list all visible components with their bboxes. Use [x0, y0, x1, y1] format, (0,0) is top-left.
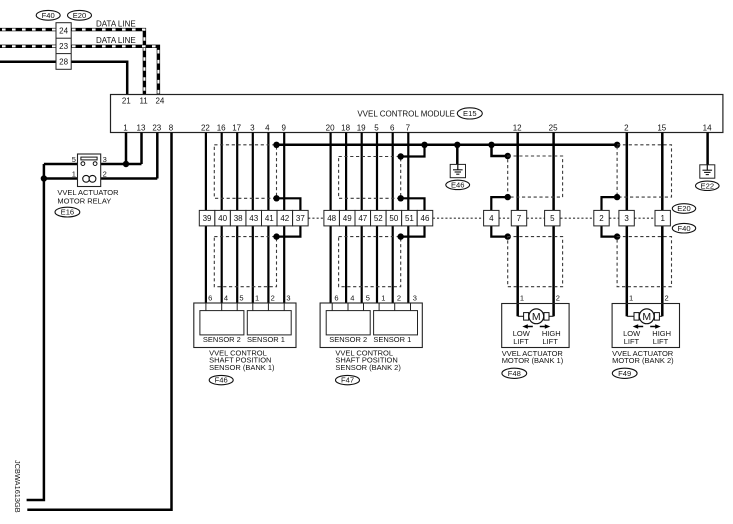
junction supply feed / relay pin 1: [41, 175, 47, 181]
svg-text:1: 1: [72, 169, 76, 178]
connector E46: [446, 180, 470, 189]
wire module pin 1 down: [125, 133, 128, 165]
svg-text:DATA LINE: DATA LINE: [96, 36, 136, 45]
junction pins 1/13/relay-3: [123, 161, 129, 167]
wire ground bus to motor1 shield: [492, 145, 508, 156]
svg-text:40: 40: [218, 214, 227, 223]
wire to module pin 21: [0, 62, 127, 95]
junction shield2 / drain lower: [398, 233, 404, 239]
svg-text:SENSOR 1: SENSOR 1: [373, 335, 411, 344]
svg-text:VVEL CONTROL MODULE: VVEL CONTROL MODULE: [357, 109, 455, 118]
wire module pin 22 to sensor bank1: [205, 133, 207, 304]
svg-text:F47: F47: [341, 376, 354, 385]
svg-text:E22: E22: [701, 181, 715, 190]
connector pin 37 (row F46 side): [293, 210, 309, 226]
wire supply feed down-left to page exit: [27, 164, 44, 500]
shield lower (sensor bank 2): [339, 237, 401, 287]
wire module pin 16 to sensor bank1: [221, 133, 223, 304]
motor M symbol bank 2: [634, 309, 659, 324]
sensor bank 1 internal stubs: [206, 303, 284, 311]
svg-text:47: 47: [358, 214, 367, 223]
shield lower (motor bank 1): [508, 237, 563, 287]
wire shield ground bus: [277, 144, 618, 147]
connector F47: [336, 375, 360, 384]
svg-text:M: M: [642, 311, 651, 323]
svg-text:2: 2: [556, 293, 560, 302]
svg-text:6: 6: [208, 293, 212, 302]
svg-text:SENSOR 2: SENSOR 2: [329, 335, 367, 344]
wire data line 2 (CAN-L) to module pin 24: [0, 46, 158, 94]
svg-text:3: 3: [624, 214, 629, 223]
wire module pin 9 to sensor bank1: [283, 133, 285, 304]
svg-text:5: 5: [239, 293, 243, 302]
connector pin 43 (row F46 side): [246, 210, 262, 226]
wire shield2 drain to pin 46 bottom: [401, 226, 425, 237]
svg-text:SENSOR (BANK 1): SENSOR (BANK 1): [209, 363, 275, 372]
svg-text:MOTOR RELAY: MOTOR RELAY: [57, 196, 111, 205]
svg-text:38: 38: [234, 214, 243, 223]
svg-text:SENSOR 1: SENSOR 1: [247, 335, 285, 344]
svg-text:22: 22: [201, 124, 210, 133]
shield upper (sensor bank 1): [214, 145, 276, 199]
motor bank 2 HIGH arrow: [650, 324, 661, 329]
svg-text:2: 2: [624, 124, 629, 133]
wire module pin 3 to sensor bank1: [252, 133, 254, 304]
svg-text:52: 52: [374, 214, 383, 223]
VVEL control module E15 box: [111, 95, 723, 133]
wire module pin 5 to sensor bank2: [376, 133, 378, 304]
junction bus / motor1 shield feed: [488, 142, 494, 148]
connector label E15 (module): [457, 108, 482, 119]
svg-text:E16: E16: [61, 208, 75, 217]
svg-text:25: 25: [549, 124, 558, 133]
connector F48: [502, 368, 527, 378]
svg-text:E46: E46: [451, 181, 465, 190]
connector pin 46 (row F47 side): [417, 210, 433, 226]
connector pin 48 (row F47 side): [324, 210, 340, 226]
svg-text:F40: F40: [42, 11, 55, 20]
svg-text:SENSOR 2: SENSOR 2: [203, 335, 241, 344]
connector E20 (row right): [672, 204, 695, 214]
wire module pin 14 to ground E22: [706, 133, 709, 165]
svg-text:18: 18: [341, 124, 350, 133]
connector pin 4 (motor bank1 row): [484, 210, 499, 226]
svg-text:17: 17: [232, 124, 241, 133]
svg-text:11: 11: [139, 97, 148, 106]
connector pin 5 (motor bank1 row): [545, 210, 560, 226]
junction shield1 / drain lower: [273, 233, 279, 239]
svg-text:1: 1: [381, 293, 385, 302]
svg-text:1: 1: [123, 124, 128, 133]
connector pin 3 (motor bank2 row): [619, 210, 634, 226]
svg-text:LIFT: LIFT: [653, 337, 669, 346]
svg-text:F48: F48: [508, 369, 521, 378]
motor bank 2 wire bends to brushes: [627, 315, 663, 317]
wire motor1 shield drain to pin 4 top: [491, 197, 507, 210]
junction motor1 shield / drain pin 4: [505, 194, 511, 200]
svg-text:E15: E15: [463, 109, 477, 118]
svg-text:MOTOR (BANK 1): MOTOR (BANK 1): [502, 356, 564, 365]
connector F49: [612, 368, 637, 378]
svg-text:JCBWA1613GB: JCBWA1613GB: [13, 460, 22, 513]
wire shield2 drain to pin 46 top: [401, 198, 425, 210]
svg-text:LIFT: LIFT: [542, 337, 558, 346]
svg-text:37: 37: [296, 214, 305, 223]
svg-text:6: 6: [390, 124, 395, 133]
svg-text:19: 19: [357, 124, 366, 133]
svg-text:5: 5: [72, 155, 76, 164]
svg-text:46: 46: [421, 214, 430, 223]
wire relay pin 2 to module pin 23: [101, 177, 158, 180]
relay E16 VVEL actuator motor relay: [78, 154, 101, 187]
svg-text:21: 21: [122, 97, 131, 106]
ground symbol E46: [450, 164, 465, 177]
junction shield1 / ground bus: [273, 142, 279, 148]
svg-text:DATA LINE: DATA LINE: [96, 20, 136, 29]
shield upper (motor bank 2): [617, 145, 671, 197]
connector pin 7 (motor bank1 row): [511, 210, 526, 226]
wire module pin 19 to sensor bank2: [361, 133, 363, 304]
svg-text:MOTOR (BANK 2): MOTOR (BANK 2): [612, 356, 674, 365]
wire module pin 17 to sensor bank1: [236, 133, 238, 304]
wire module pin 6 to sensor bank2: [392, 133, 394, 304]
connector F40 (top left): [36, 10, 60, 20]
wire module pin 4 to sensor bank1: [267, 133, 269, 304]
junction motor1 shield lower: [505, 233, 511, 239]
svg-text:4: 4: [489, 214, 494, 223]
wire module pin 12 to motor bank1: [516, 133, 519, 317]
svg-text:16: 16: [217, 124, 226, 133]
connector pin 49 (row F47 side): [339, 210, 355, 226]
svg-text:6: 6: [334, 293, 338, 302]
shield lower (motor bank 2): [617, 237, 671, 287]
svg-text:5: 5: [366, 293, 370, 302]
junction motor1 shield top: [505, 153, 511, 159]
junction motor2 shield lower: [614, 233, 620, 239]
svg-text:8: 8: [169, 124, 174, 133]
sensor bank 2 internal stubs: [332, 303, 410, 311]
wire module pin 15 to motor bank2: [661, 133, 664, 317]
shield upper (sensor bank 2): [339, 157, 401, 199]
wire module pin 25 to motor bank1: [552, 133, 555, 317]
connector cell block pins 24/23/28 (F40/E20): [56, 23, 71, 70]
svg-text:3: 3: [286, 293, 290, 302]
junction shield2 / drain top: [398, 153, 404, 159]
connector F40 (row right): [672, 223, 695, 233]
svg-text:4: 4: [224, 293, 228, 302]
junction bus / shield2 drain: [421, 142, 427, 148]
svg-text:28: 28: [59, 57, 68, 66]
svg-text:51: 51: [405, 214, 414, 223]
wire motor2 shield drain to pin 2 bottom: [602, 226, 618, 237]
svg-text:20: 20: [326, 124, 335, 133]
svg-text:9: 9: [281, 124, 286, 133]
svg-text:2: 2: [103, 169, 107, 178]
svg-text:5: 5: [374, 124, 379, 133]
svg-text:2: 2: [599, 214, 604, 223]
wire shield1 drain to pin 37 top: [277, 198, 301, 210]
svg-text:LIFT: LIFT: [513, 337, 529, 346]
svg-text:3: 3: [250, 124, 255, 133]
junction shield2 / drain upper: [398, 195, 404, 201]
svg-text:SENSOR (BANK 2): SENSOR (BANK 2): [335, 363, 401, 372]
VVEL actuator motor bank 1 box: [502, 304, 569, 348]
svg-text:F49: F49: [618, 369, 631, 378]
connector pin 51 (row F47 side): [402, 210, 418, 226]
wire module pin 13 down: [140, 133, 143, 165]
VVEL actuator motor bank 2 box: [612, 304, 679, 348]
shield upper (motor bank 1): [508, 156, 563, 197]
svg-text:14: 14: [703, 124, 712, 133]
connector pin 50 (row F47 side): [386, 210, 402, 226]
connector F46: [209, 375, 233, 384]
motor M symbol bank 1: [524, 309, 549, 324]
VVEL control shaft position sensor bank 1 box: [194, 303, 296, 348]
motor bank 1 HIGH arrow: [540, 324, 551, 329]
svg-text:E20: E20: [73, 11, 87, 20]
svg-text:E20: E20: [677, 204, 691, 213]
svg-text:23: 23: [152, 124, 161, 133]
motor bank 1 wire bends to brushes: [518, 315, 554, 317]
wire module pin 7 to sensor bank2: [407, 133, 409, 304]
wire data line 1 (CAN-H) to module pin 11: [0, 30, 144, 95]
svg-text:43: 43: [249, 214, 258, 223]
connector E16: [55, 207, 80, 217]
svg-text:42: 42: [280, 214, 289, 223]
svg-text:1: 1: [255, 293, 259, 302]
connector pin 52 (row F47 side): [371, 210, 387, 226]
svg-text:4: 4: [265, 124, 270, 133]
svg-text:F46: F46: [215, 376, 228, 385]
wire shield2 drain to ground bus: [401, 145, 425, 157]
svg-text:5: 5: [550, 214, 555, 223]
svg-text:2: 2: [271, 293, 275, 302]
wire module pin 8 down to page exit: [27, 133, 171, 510]
connector pin 2 (motor bank2 row): [594, 210, 609, 226]
svg-text:49: 49: [343, 214, 352, 223]
svg-text:M: M: [532, 311, 541, 323]
wire shield1 drain to pin 37 bottom: [277, 226, 301, 237]
wire to ground E46: [456, 145, 459, 165]
wire relay pin 1 to supply: [44, 177, 78, 180]
svg-text:2: 2: [397, 293, 401, 302]
svg-text:24: 24: [59, 26, 68, 35]
wire module pin 18 to sensor bank2: [345, 133, 347, 304]
svg-text:1: 1: [660, 214, 665, 223]
wire motor2 shield drain to pin 2 top: [602, 197, 618, 210]
svg-text:13: 13: [137, 124, 146, 133]
motor bank 2 LOW arrow: [633, 324, 644, 329]
svg-text:50: 50: [389, 214, 398, 223]
wire relay pin 5 to supply: [44, 163, 78, 166]
svg-text:2: 2: [665, 293, 669, 302]
svg-text:F40: F40: [677, 224, 690, 233]
svg-text:23: 23: [59, 42, 68, 51]
connector pin 38 (row F46 side): [230, 210, 246, 226]
svg-text:3: 3: [413, 293, 417, 302]
connector pin 39 (row F46 side): [199, 210, 215, 226]
motor bank 1 LOW arrow: [522, 324, 533, 329]
wire module pin 23 down: [156, 133, 159, 179]
connector pin 40 (row F46 side): [215, 210, 231, 226]
connector pin 1 (motor bank2 row): [655, 210, 670, 226]
svg-text:39: 39: [203, 214, 212, 223]
connector pin 47 (row F47 side): [355, 210, 371, 226]
connector pin 42 (row F46 side): [277, 210, 293, 226]
wire relay pin 3 to module pins 1/13: [101, 163, 142, 166]
svg-text:7: 7: [406, 124, 411, 133]
svg-text:3: 3: [103, 155, 107, 164]
connector E20 (top left): [68, 10, 92, 20]
shield lower (sensor bank 1): [214, 237, 276, 287]
svg-text:LIFT: LIFT: [624, 337, 640, 346]
junction motor2 shield / drain pin 2: [614, 194, 620, 200]
svg-text:12: 12: [513, 124, 522, 133]
wire module pin 2 to motor bank2: [626, 133, 629, 317]
svg-text:1: 1: [520, 293, 524, 302]
svg-text:4: 4: [350, 293, 354, 302]
svg-text:48: 48: [327, 214, 336, 223]
svg-text:41: 41: [265, 214, 274, 223]
svg-text:15: 15: [657, 124, 666, 133]
svg-text:24: 24: [155, 97, 164, 106]
intermediate connector row dotted link line: [308, 217, 655, 219]
svg-text:1: 1: [629, 293, 633, 302]
VVEL control shaft position sensor bank 2 box: [320, 303, 422, 348]
junction bus / E46 drop: [454, 142, 460, 148]
connector E22: [696, 181, 720, 190]
wire module pin 20 to sensor bank2: [330, 133, 332, 304]
junction shield1 / drain upper: [273, 195, 279, 201]
connector pin 41 (row F46 side): [262, 210, 278, 226]
wire motor1 shield drain to pin 4 bottom: [491, 226, 507, 237]
svg-text:7: 7: [517, 214, 522, 223]
junction bus end / motor2 shield: [614, 142, 620, 148]
ground symbol E22: [700, 165, 715, 178]
